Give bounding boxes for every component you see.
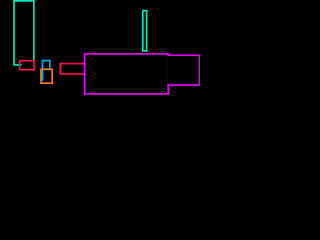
metal1 rect M1 (tall teal rectangle, top left; bottom edge stub ends x=21.3, right edge stops at red rect) (14, 1, 34, 65)
contact rect R1 (crimson rectangle with black fill occluding teal interior) (20, 61, 34, 70)
nwell rect W2 (right magenta rectangle: top, right, bottom edges only) (168, 55, 200, 85)
nwell rect W2 black fill (occludes big rect right edge inside) (167, 56, 200, 84)
nwell rect W1 (big magenta rectangle outline) (85, 54, 169, 94)
via bar V1 (narrow teal vertical bar, top right) (143, 11, 147, 51)
metal1 stub (teal bottom-edge overshoot visible inside crimson rect) (20, 64, 21, 66)
metal2 pin B1 (blue open shape: left vertical to y=80, top edge, right vertical to orange top) (42, 61, 49, 81)
contact rect R2 (crimson rectangle, right edge merges with big magenta left edge) (60, 64, 84, 74)
poly rect O1 (orange rectangle outline, drawn over blue verticals) (41, 69, 52, 83)
